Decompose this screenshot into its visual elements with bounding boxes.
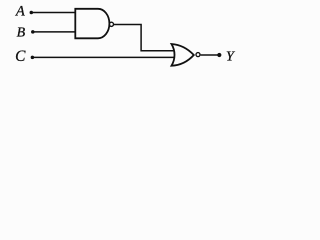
background — [0, 0, 262, 72]
svg-text:A: A — [15, 4, 25, 20]
wire B — [33, 31, 76, 33]
wire from NAND output to NOR input — [114, 24, 174, 50]
node C dot — [31, 56, 35, 60]
NOR gate U2 body — [172, 44, 194, 66]
node B dot — [31, 30, 35, 33]
NAND gate U1 body — [75, 9, 109, 39]
NAND gate U1 output bubble — [109, 22, 113, 26]
wire C — [32, 56, 173, 58]
NOR gate U2 output bubble — [196, 53, 200, 57]
svg-text:C: C — [15, 48, 26, 65]
node Y dot — [217, 53, 221, 57]
wire A — [31, 12, 75, 14]
svg-text:B: B — [17, 25, 26, 40]
wire NOR output to Y — [201, 54, 219, 56]
node A dot — [30, 11, 34, 15]
